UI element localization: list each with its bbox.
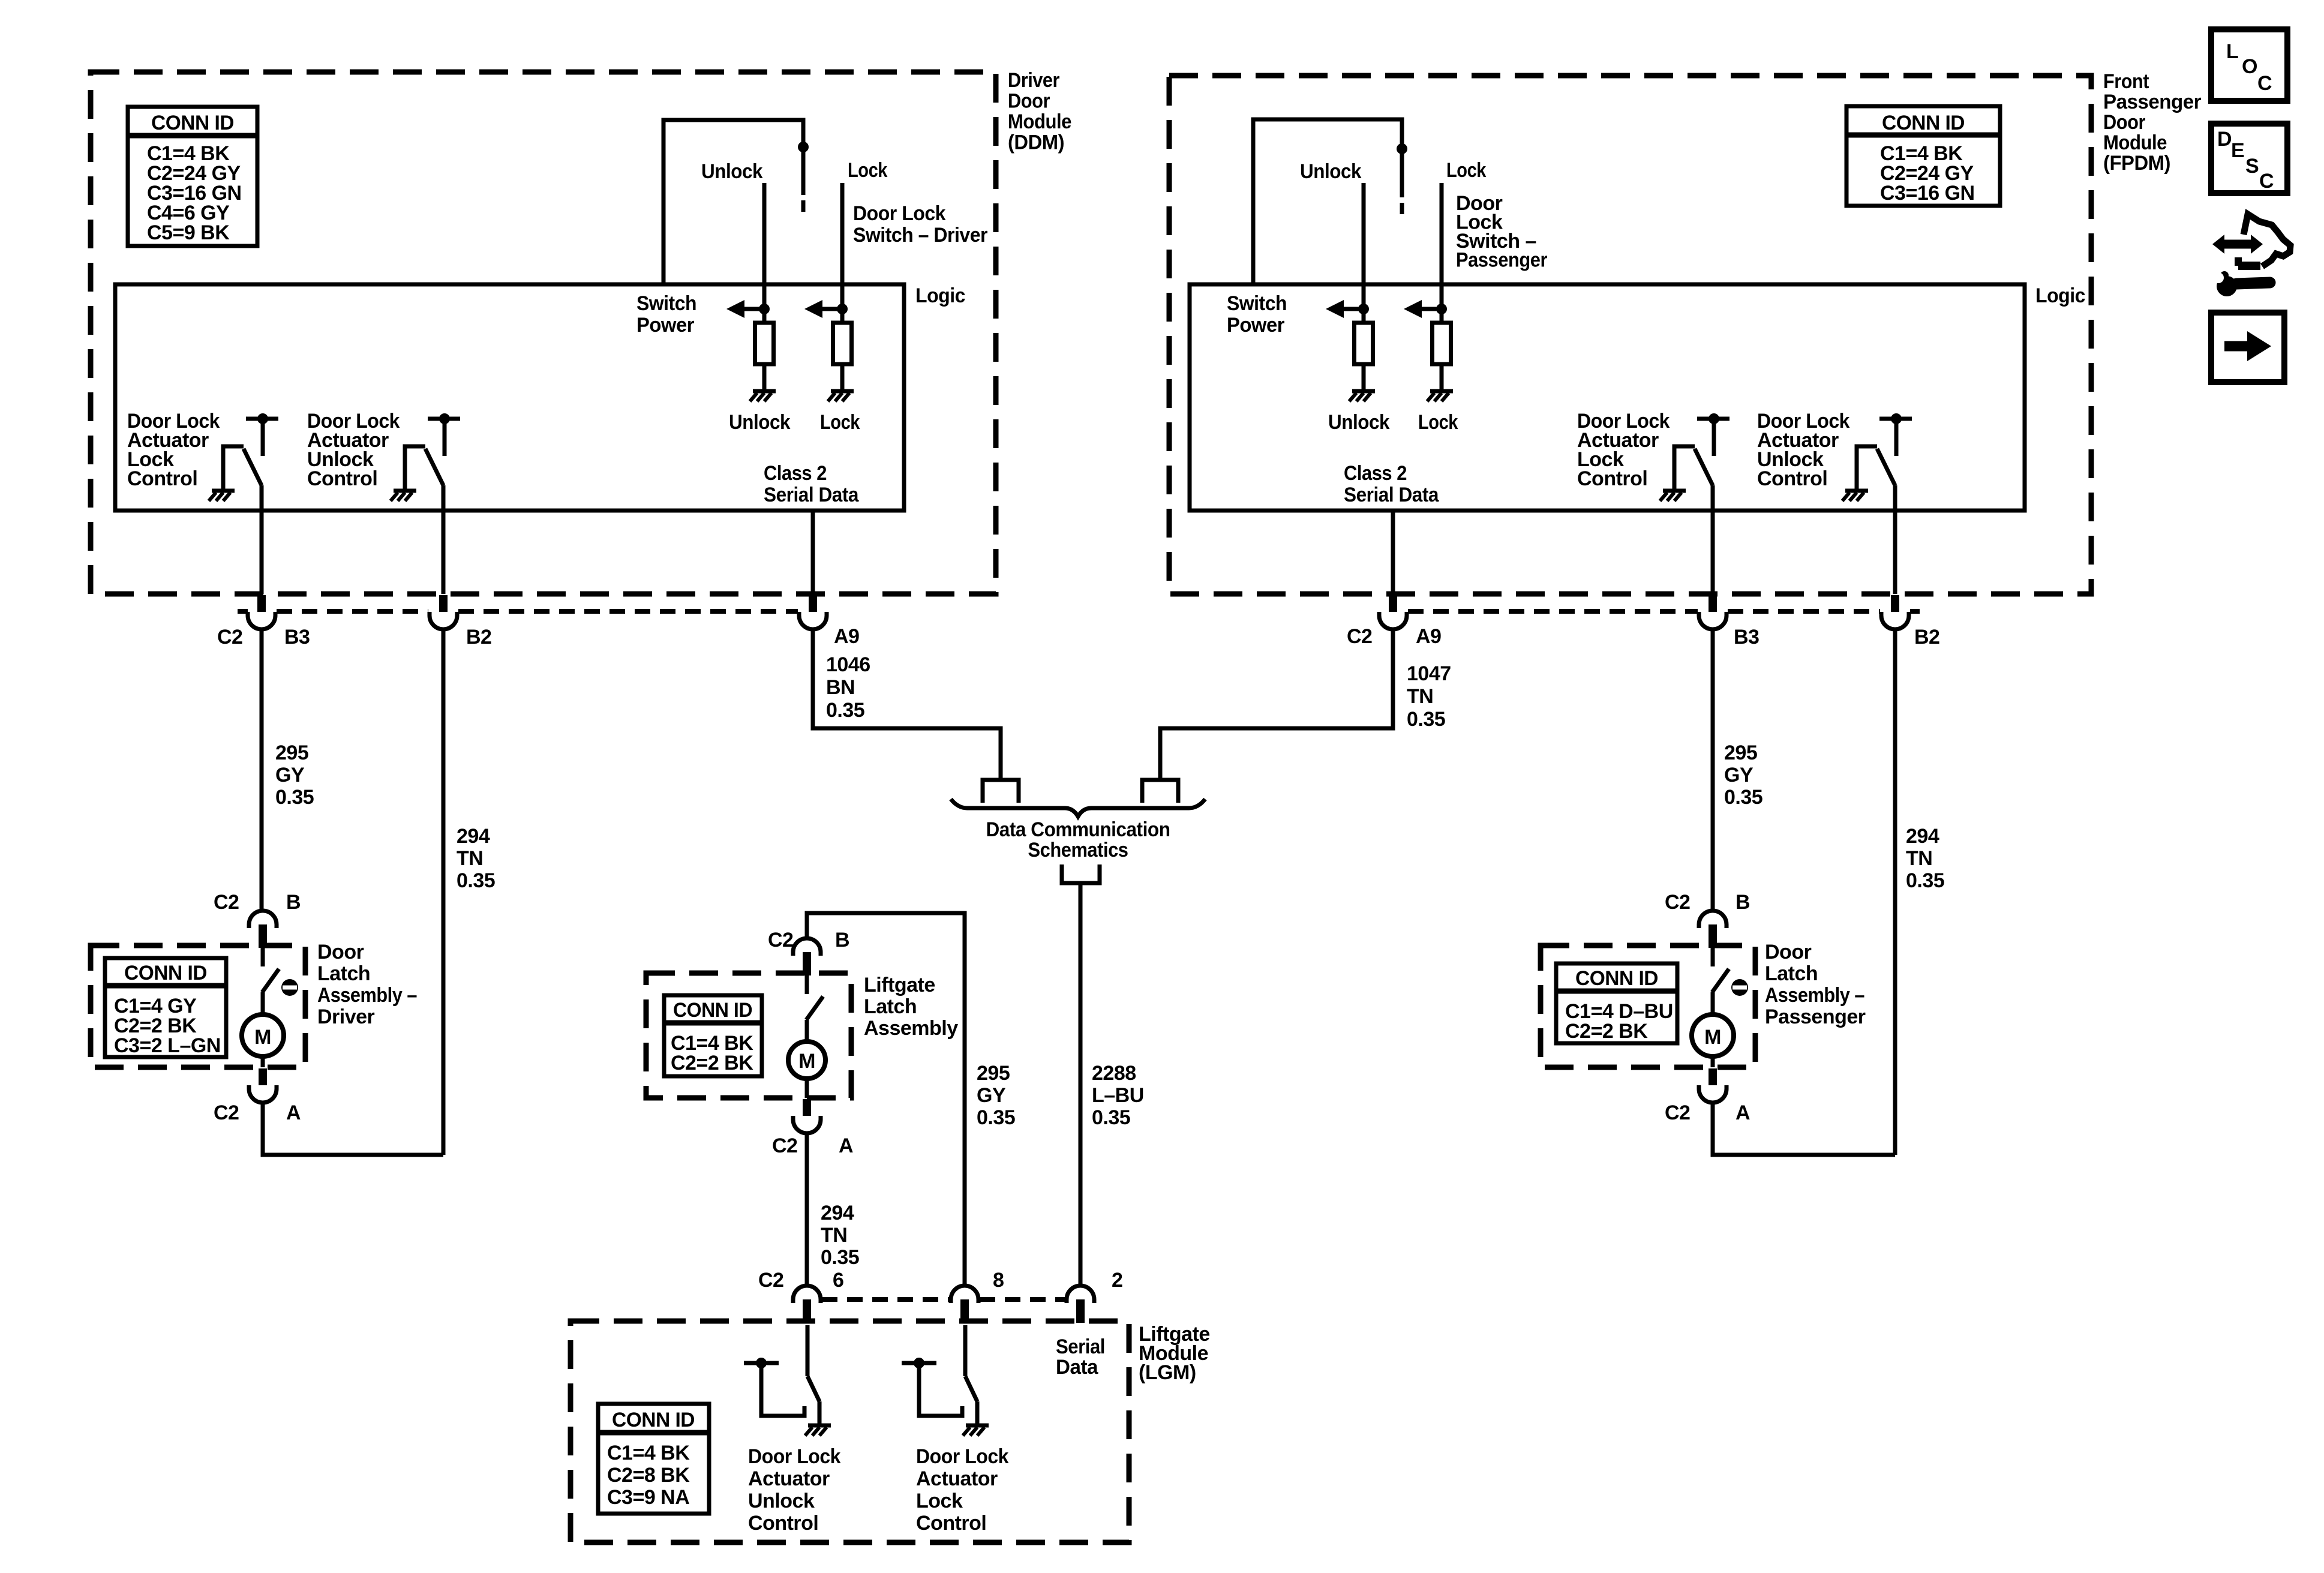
svg-text:Driver: Driver	[317, 1005, 375, 1028]
svg-text:Passenger: Passenger	[1765, 1005, 1866, 1028]
svg-text:Latch: Latch	[1765, 962, 1818, 985]
svg-text:Door: Door	[1765, 941, 1812, 963]
svg-text:Assembly –: Assembly –	[1765, 984, 1864, 1007]
svg-text:C2: C2	[1347, 625, 1372, 648]
svg-text:(DDM): (DDM)	[1008, 131, 1064, 154]
svg-text:Lock: Lock	[848, 159, 888, 182]
svg-text:C2=2 BK: C2=2 BK	[671, 1052, 753, 1074]
svg-text:Unlock: Unlock	[701, 160, 763, 183]
svg-text:Passenger: Passenger	[1456, 249, 1547, 272]
svg-text:C: C	[2257, 72, 2272, 95]
svg-text:0.35: 0.35	[1724, 786, 1762, 809]
svg-text:Liftgate: Liftgate	[864, 974, 935, 996]
svg-text:TN: TN	[1906, 847, 1932, 870]
svg-text:E: E	[2231, 139, 2244, 162]
svg-text:B: B	[835, 929, 849, 951]
svg-text:Lock: Lock	[1446, 159, 1487, 182]
svg-text:CONN ID: CONN ID	[1575, 967, 1658, 990]
svg-text:CONN ID: CONN ID	[1882, 112, 1965, 134]
svg-text:Switch – Driver: Switch – Driver	[853, 224, 987, 247]
svg-text:Data: Data	[1056, 1356, 1099, 1379]
svg-text:Control: Control	[916, 1512, 986, 1535]
svg-text:A9: A9	[834, 625, 859, 648]
svg-text:Power: Power	[1227, 314, 1284, 337]
svg-text:C2: C2	[758, 1269, 783, 1292]
svg-text:1047: 1047	[1407, 662, 1451, 685]
svg-text:GY: GY	[275, 764, 305, 786]
svg-text:0.35: 0.35	[1092, 1106, 1130, 1129]
svg-text:0.35: 0.35	[821, 1246, 859, 1269]
svg-text:L–BU: L–BU	[1092, 1084, 1144, 1107]
svg-text:(LGM): (LGM)	[1139, 1361, 1196, 1384]
svg-text:0.35: 0.35	[275, 786, 314, 809]
svg-text:Control: Control	[307, 467, 377, 490]
svg-text:C2: C2	[1665, 891, 1690, 914]
svg-text:1046: 1046	[826, 653, 870, 676]
svg-text:Class 2: Class 2	[1344, 462, 1407, 485]
svg-text:Module: Module	[1008, 110, 1071, 133]
svg-text:Front: Front	[2103, 70, 2149, 93]
svg-text:A9: A9	[1416, 625, 1441, 648]
svg-text:M: M	[798, 1050, 815, 1073]
svg-text:B2: B2	[466, 626, 491, 649]
svg-text:6: 6	[833, 1269, 843, 1292]
svg-text:294: 294	[1906, 825, 1939, 848]
svg-text:Assembly: Assembly	[864, 1017, 958, 1040]
svg-text:Passenger: Passenger	[2103, 91, 2201, 113]
svg-text:Door Lock: Door Lock	[916, 1445, 1009, 1468]
svg-text:Serial: Serial	[1056, 1335, 1105, 1358]
svg-text:Serial Data: Serial Data	[1344, 484, 1439, 506]
svg-text:C2: C2	[772, 1134, 797, 1157]
svg-text:Logic: Logic	[915, 284, 965, 307]
svg-text:GY: GY	[1724, 764, 1753, 786]
svg-text:D: D	[2217, 128, 2232, 151]
svg-text:Latch: Latch	[317, 962, 370, 985]
svg-text:B3: B3	[284, 626, 310, 649]
svg-text:294: 294	[821, 1202, 854, 1224]
svg-text:C2: C2	[217, 626, 242, 649]
svg-text:0.35: 0.35	[1906, 869, 1944, 892]
svg-text:CONN ID: CONN ID	[673, 999, 752, 1022]
svg-text:Actuator: Actuator	[748, 1467, 830, 1490]
svg-text:C2: C2	[214, 891, 239, 914]
svg-text:295: 295	[275, 742, 308, 764]
svg-text:C2=8 BK: C2=8 BK	[607, 1464, 690, 1487]
svg-text:L: L	[2226, 40, 2238, 63]
svg-text:Latch: Latch	[864, 995, 917, 1018]
svg-text:C2: C2	[1665, 1101, 1690, 1124]
svg-text:8: 8	[993, 1269, 1004, 1292]
svg-text:295: 295	[977, 1062, 1010, 1085]
svg-text:C3=16 GN: C3=16 GN	[1880, 182, 1975, 205]
svg-text:0.35: 0.35	[977, 1106, 1015, 1129]
svg-text:C2: C2	[768, 929, 793, 951]
svg-text:Serial Data: Serial Data	[764, 484, 859, 506]
svg-text:CONN ID: CONN ID	[151, 112, 234, 134]
svg-text:295: 295	[1724, 742, 1757, 764]
svg-text:C1=4 BK: C1=4 BK	[607, 1442, 690, 1464]
svg-text:(FPDM): (FPDM)	[2103, 152, 2170, 175]
svg-text:O: O	[2242, 55, 2257, 78]
svg-text:294: 294	[457, 825, 490, 848]
svg-text:TN: TN	[821, 1224, 847, 1247]
svg-text:CONN ID: CONN ID	[612, 1409, 695, 1431]
svg-text:TN: TN	[457, 847, 483, 870]
svg-text:CONN ID: CONN ID	[124, 962, 207, 984]
svg-text:Schematics: Schematics	[1028, 839, 1128, 861]
svg-text:C3=2 L–GN: C3=2 L–GN	[114, 1034, 221, 1057]
svg-text:Door: Door	[1008, 90, 1050, 113]
svg-text:Control: Control	[748, 1512, 818, 1535]
svg-text:Actuator: Actuator	[916, 1467, 998, 1490]
svg-text:B: B	[286, 891, 301, 914]
svg-text:Driver: Driver	[1008, 69, 1059, 92]
svg-text:S: S	[2245, 155, 2259, 178]
svg-text:Power: Power	[636, 314, 694, 337]
svg-text:0.35: 0.35	[1407, 708, 1445, 731]
svg-text:GY: GY	[977, 1084, 1006, 1107]
svg-text:Class 2: Class 2	[764, 462, 827, 485]
svg-text:B2: B2	[1914, 626, 1939, 649]
svg-text:BN: BN	[826, 676, 855, 699]
svg-text:A: A	[839, 1134, 853, 1157]
svg-text:Control: Control	[1757, 467, 1827, 490]
svg-text:Unlock: Unlock	[748, 1490, 815, 1512]
svg-text:Lock: Lock	[820, 411, 860, 434]
svg-text:Control: Control	[127, 467, 197, 490]
svg-text:0.35: 0.35	[457, 869, 495, 892]
svg-text:Lock: Lock	[1418, 411, 1458, 434]
svg-text:Door: Door	[317, 941, 364, 963]
svg-text:Lock: Lock	[916, 1490, 963, 1512]
svg-text:TN: TN	[1407, 685, 1433, 708]
svg-text:A: A	[1736, 1101, 1750, 1124]
svg-text:Control: Control	[1577, 467, 1647, 490]
svg-text:2288: 2288	[1092, 1062, 1136, 1085]
svg-text:Module: Module	[2103, 131, 2167, 154]
svg-text:C: C	[2259, 170, 2274, 193]
svg-text:Unlock: Unlock	[1300, 160, 1362, 183]
svg-text:Door Lock: Door Lock	[748, 1445, 841, 1468]
svg-text:Logic: Logic	[2035, 284, 2085, 307]
svg-text:Unlock: Unlock	[729, 411, 791, 434]
svg-text:A: A	[286, 1101, 301, 1124]
svg-text:B3: B3	[1734, 626, 1759, 649]
svg-text:Unlock: Unlock	[1328, 411, 1390, 434]
svg-text:0.35: 0.35	[826, 699, 864, 722]
svg-text:Switch: Switch	[1227, 292, 1287, 315]
svg-text:Door: Door	[2103, 111, 2145, 134]
svg-text:Switch: Switch	[636, 292, 696, 315]
svg-text:Data Communication: Data Communication	[986, 818, 1170, 841]
svg-text:C2: C2	[214, 1101, 239, 1124]
svg-text:C5=9 BK: C5=9 BK	[147, 221, 230, 244]
svg-text:2: 2	[1112, 1269, 1122, 1292]
svg-text:C3=9 NA: C3=9 NA	[607, 1486, 689, 1509]
svg-text:Door Lock: Door Lock	[853, 202, 946, 225]
svg-text:C2=2 BK: C2=2 BK	[1565, 1020, 1648, 1043]
svg-text:Assembly –: Assembly –	[317, 984, 417, 1007]
svg-text:B: B	[1736, 891, 1750, 914]
